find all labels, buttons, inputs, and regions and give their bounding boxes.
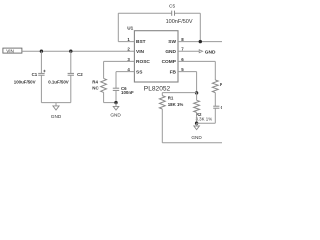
- svg-text:R3: R3: [220, 82, 222, 87]
- svg-text:0.1uF/50V: 0.1uF/50V: [48, 79, 69, 84]
- svg-text:VIN: VIN: [136, 49, 145, 55]
- svg-text:VIN: VIN: [6, 48, 14, 53]
- svg-text:C4: C4: [221, 105, 222, 110]
- svg-text:COMP: COMP: [162, 59, 177, 65]
- svg-text:U1: U1: [127, 25, 133, 30]
- svg-text:3.3K 1%: 3.3K 1%: [196, 117, 213, 122]
- svg-text:GND: GND: [191, 135, 202, 140]
- svg-text:C5: C5: [169, 4, 175, 10]
- svg-text:ROSC: ROSC: [136, 59, 150, 65]
- svg-text:100uF/50V: 100uF/50V: [14, 79, 36, 84]
- svg-text:GND: GND: [165, 49, 176, 55]
- svg-text:FB: FB: [170, 69, 177, 75]
- svg-text:GND: GND: [51, 114, 62, 119]
- svg-text:R4: R4: [92, 79, 98, 84]
- svg-text:SW: SW: [168, 39, 176, 45]
- svg-text:100nF: 100nF: [121, 90, 134, 95]
- svg-text:GND: GND: [110, 112, 121, 117]
- svg-text:R1: R1: [168, 96, 174, 101]
- svg-text:PL82052: PL82052: [144, 85, 171, 92]
- svg-text:C2: C2: [77, 72, 83, 77]
- svg-text:BST: BST: [136, 39, 146, 45]
- svg-text:GND: GND: [205, 50, 216, 56]
- svg-text:100nF/50V: 100nF/50V: [166, 19, 193, 25]
- svg-text:SS: SS: [136, 69, 143, 75]
- svg-text:C1: C1: [32, 72, 38, 77]
- svg-text:NC: NC: [92, 86, 99, 91]
- svg-text:18K 1%: 18K 1%: [168, 102, 184, 107]
